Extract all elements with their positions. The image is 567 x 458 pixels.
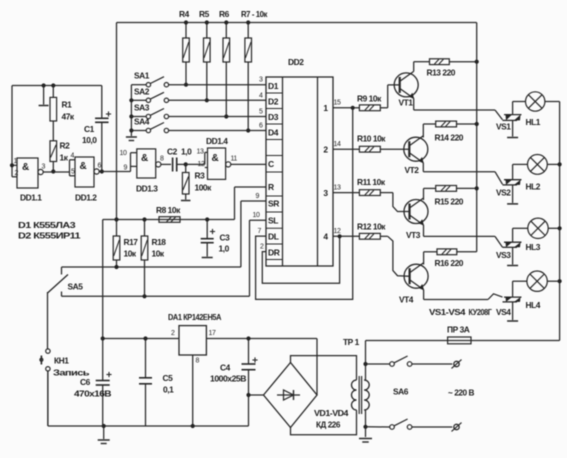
transistor VT3 [404, 198, 428, 240]
node R1 stub junction [42, 83, 46, 87]
svg-text:R7 - 10к: R7 - 10к [241, 9, 268, 19]
svg-text:R1: R1 [62, 100, 73, 110]
svg-text:D2 К555ИР11: D2 К555ИР11 [18, 231, 81, 241]
svg-text:1,0: 1,0 [181, 147, 192, 157]
bridge VD1-VD4 [264, 363, 349, 430]
resistor R1 [50, 86, 75, 141]
svg-text:C3: C3 [220, 233, 231, 243]
resistor R3 [181, 164, 212, 200]
node C1 bottom junction [100, 169, 104, 173]
wire bottom rail [48, 371, 249, 426]
capacitor C6 [74, 339, 112, 427]
wire primary top [363, 341, 367, 381]
svg-text:SA5: SA5 [68, 282, 84, 292]
svg-text:12: 12 [198, 161, 205, 168]
button КН1 Запись [40, 349, 89, 426]
svg-text:R13 220: R13 220 [427, 68, 456, 78]
switch SA1 [131, 71, 266, 87]
svg-text:SA2: SA2 [134, 86, 150, 96]
svg-text:R16 220: R16 220 [435, 258, 464, 268]
wire bridge top to transformer [291, 356, 357, 380]
svg-text:HL1: HL1 [526, 117, 541, 127]
svg-text:SA4: SA4 [134, 117, 150, 127]
svg-text:SR: SR [268, 199, 279, 209]
svg-text:ТР 1: ТР 1 [343, 337, 360, 347]
fuse ПР 3А [447, 325, 471, 344]
svg-text:17: 17 [209, 330, 216, 337]
wire +5 rail [101, 336, 179, 340]
node C3 top junction [205, 217, 209, 221]
svg-text:4: 4 [71, 153, 75, 160]
gate DD1.1 [17, 158, 70, 203]
pin numbers DD2 left [253, 77, 265, 251]
terminal lower ~220V [452, 423, 462, 432]
wire VT4 emitter to VS4 gate [424, 290, 503, 300]
svg-text:SL: SL [268, 216, 278, 226]
wire HL3 to right bus [548, 227, 559, 229]
svg-text:VS3: VS3 [496, 250, 511, 260]
node C4 / bridge junction [246, 393, 250, 397]
svg-text:R18: R18 [152, 237, 167, 247]
svg-text:D1 К555ЛА3: D1 К555ЛА3 [18, 220, 76, 230]
svg-text:R: R [268, 182, 274, 192]
wire right lamp bus [558, 102, 562, 341]
svg-text:ПР 3А: ПР 3А [447, 325, 470, 335]
svg-text:SA1: SA1 [134, 71, 150, 81]
svg-text:R10 10к: R10 10к [357, 134, 386, 144]
svg-text:DD1.3: DD1.3 [136, 184, 158, 194]
capacitor C5 [139, 339, 174, 427]
svg-text:КД 226: КД 226 [316, 420, 341, 430]
label D1 type [18, 220, 76, 230]
wire DD1.1 pin1 stub [12, 164, 17, 166]
resistor R18 [141, 220, 166, 297]
label mains voltage [448, 388, 474, 398]
wire stub with T-bar near R1 [39, 86, 49, 106]
ground VS1 [507, 120, 518, 137]
wire VS2 anode to lamp [513, 164, 528, 179]
svg-text:D4: D4 [268, 128, 279, 138]
svg-text:VS4: VS4 [496, 307, 511, 317]
wire R9 to VT1 base [388, 85, 400, 108]
svg-text:4: 4 [259, 92, 263, 99]
svg-text:DD1.4: DD1.4 [206, 136, 228, 146]
svg-text:2: 2 [171, 330, 175, 337]
svg-text:SA3: SA3 [134, 103, 150, 113]
resistor R17 [113, 220, 138, 268]
node C6 bottom junction [102, 424, 106, 428]
svg-text:C6: C6 [80, 377, 91, 387]
svg-text:C: C [268, 159, 274, 169]
resistor R15 [424, 186, 479, 207]
svg-text:13: 13 [197, 149, 204, 156]
resistor R10 [333, 134, 409, 153]
label D2 type [18, 231, 81, 241]
resistor R11 [333, 177, 393, 196]
svg-text:DD2: DD2 [288, 57, 304, 67]
lamp HL4 [526, 271, 548, 310]
svg-text:R8 10к: R8 10к [156, 205, 181, 215]
svg-text:13: 13 [334, 185, 341, 192]
wire primary to SA6 lower [366, 426, 390, 428]
svg-text:9: 9 [256, 193, 260, 200]
label VS1-VS4 type [429, 307, 492, 317]
svg-text:C4: C4 [220, 363, 231, 373]
thyristor VS2 [496, 180, 522, 198]
svg-text:&: & [212, 153, 219, 164]
svg-text:SA6: SA6 [393, 387, 409, 397]
svg-text:R6: R6 [219, 9, 230, 19]
svg-text:10к: 10к [124, 249, 137, 259]
svg-text:5: 5 [71, 169, 75, 176]
wire SR net [62, 201, 267, 269]
svg-text:VS1-VS4: VS1-VS4 [429, 307, 466, 317]
svg-text:14: 14 [334, 141, 341, 148]
capacitor C1 [82, 86, 111, 172]
svg-text:VT4: VT4 [399, 295, 414, 305]
lamp HL3 [526, 218, 549, 252]
wire HL4 to right bus [547, 280, 559, 282]
svg-text:C5: C5 [163, 373, 174, 383]
wire oscillator left drop to DD1.1 inputs [11, 86, 13, 177]
pin labels DD1.4 [197, 149, 238, 169]
wire R12 to VT4 base [388, 236, 410, 276]
wire top +5V rail [117, 22, 477, 24]
svg-text:1,0: 1,0 [219, 244, 230, 254]
switch SA6 upper [390, 356, 453, 366]
svg-text:100к: 100к [195, 183, 213, 193]
node bus/R17 junction [114, 217, 118, 221]
svg-text:10,0: 10,0 [82, 135, 97, 145]
wire primary bottom [363, 410, 367, 437]
switch SA3 [129, 103, 266, 119]
wire HL1 to right bus [545, 101, 560, 103]
node R18 top junction [142, 217, 146, 221]
svg-text:КУ208Г: КУ208Г [469, 307, 493, 317]
label SA6 [393, 387, 409, 397]
svg-text:5: 5 [259, 109, 263, 116]
IC DD2 outline [266, 57, 333, 266]
wire SA common bus [130, 85, 132, 136]
resistor R12 [333, 222, 388, 240]
wire into DD1.3 inputs [131, 153, 137, 172]
wire primary to SA6 upper [366, 363, 390, 365]
svg-text:R17: R17 [124, 237, 139, 247]
svg-text:R12 10к: R12 10к [357, 222, 386, 232]
capacitor C2 [167, 147, 192, 172]
svg-text:VD1-VD4: VD1-VD4 [314, 408, 349, 418]
gate DD1.2 [70, 157, 131, 203]
transistor VT2 [404, 136, 428, 175]
svg-text:HL4: HL4 [526, 300, 541, 310]
node DR-output4 junction [338, 234, 342, 238]
svg-text:47к: 47к [62, 112, 75, 122]
svg-text:8: 8 [160, 156, 164, 163]
thyristor VS1 [496, 115, 522, 132]
wire DA1 ground pin [191, 355, 195, 428]
transistor VT4 [399, 263, 428, 305]
svg-text:R15 220: R15 220 [435, 196, 464, 206]
wire oscillator top [12, 85, 102, 87]
wire bridge right vertex to +rail [316, 339, 318, 396]
wire riser to R pin [235, 187, 267, 220]
svg-text:&: & [141, 153, 148, 164]
svg-text:1000х25В: 1000х25В [210, 374, 246, 384]
wire VT1 emitter to VS1 gate [414, 98, 503, 119]
thyristor VS4 [496, 297, 522, 317]
svg-text:R2: R2 [60, 141, 71, 151]
wire SL net [62, 220, 267, 298]
svg-text:VS2: VS2 [496, 188, 511, 198]
svg-text:10: 10 [120, 150, 127, 157]
pin labels DD1.3 [120, 150, 165, 172]
svg-text:10к: 10к [152, 249, 165, 259]
svg-text:D3: D3 [268, 112, 279, 122]
svg-text:2: 2 [260, 244, 264, 251]
svg-text:КН1: КН1 [54, 356, 69, 366]
svg-text:C1: C1 [84, 124, 95, 134]
svg-text:15: 15 [334, 100, 341, 107]
svg-text:DR: DR [268, 248, 280, 258]
svg-text:HL2: HL2 [526, 182, 541, 192]
pin labels DD1.1 [14, 158, 46, 177]
node C2-R3 junction [184, 162, 188, 166]
wire VT3 emitter to VS3 gate [424, 225, 503, 247]
svg-text:R11 10к: R11 10к [357, 177, 386, 187]
lamp HL2 [526, 155, 548, 192]
ground VS4 [507, 302, 518, 321]
svg-text:HL3: HL3 [526, 242, 541, 252]
IC DD2 left labels [268, 81, 280, 258]
wire VS1 anode to lamp [513, 102, 526, 115]
svg-text:VT3: VT3 [406, 230, 421, 240]
wire VS4 anode to lamp [513, 281, 527, 297]
svg-text:DD1.1: DD1.1 [20, 193, 42, 203]
wire +5 drop to DA1 rail [102, 220, 104, 339]
wire VT2 emitter to VS2 gate [423, 163, 502, 185]
resistor R13 [414, 59, 479, 78]
ground main [98, 426, 110, 444]
resistor R5 [199, 9, 210, 102]
wire C2 to DD1.4 [186, 163, 205, 165]
wire +5 distribution line [103, 219, 235, 221]
ground transformer [359, 439, 372, 443]
resistor R14 [423, 121, 479, 142]
svg-text:D2: D2 [268, 97, 279, 107]
svg-text:470х16В: 470х16В [74, 389, 111, 399]
svg-text:R3: R3 [195, 171, 206, 181]
transistor VT1 [394, 71, 418, 107]
svg-text:10: 10 [253, 212, 260, 219]
ground VS3 [507, 247, 518, 265]
resistor R9 [333, 94, 388, 111]
transformer TP1 [343, 337, 369, 414]
wire DL feedback loop [256, 108, 353, 300]
wire left vertical bus [116, 23, 118, 220]
switch SA2 [129, 86, 266, 102]
svg-text:6: 6 [259, 123, 263, 130]
svg-text:Запись: Запись [53, 368, 89, 378]
gate DD1.4 [206, 136, 266, 179]
switch SA5 [48, 267, 84, 349]
svg-text:&: & [80, 161, 87, 172]
svg-text:7: 7 [258, 228, 262, 235]
wire right bus from top rail [476, 23, 478, 252]
resistor R16 [424, 249, 477, 268]
terminal upper ~220V [452, 360, 462, 369]
node R1 top junction [51, 83, 55, 87]
wire HL2 to right bus [547, 163, 559, 165]
resistor R6 [219, 9, 230, 119]
wire into DD1.4 inputs [205, 152, 208, 167]
capacitor C4 [210, 339, 258, 427]
switch SA4 [129, 117, 266, 133]
svg-text:C2: C2 [167, 147, 178, 157]
svg-text:1: 1 [14, 158, 18, 165]
svg-text:R5: R5 [199, 9, 210, 19]
svg-text:12: 12 [334, 228, 341, 235]
svg-text:3: 3 [42, 164, 46, 171]
svg-text:9: 9 [124, 165, 128, 172]
svg-text:D1: D1 [268, 81, 279, 91]
svg-text:DA1 КР142ЕН5А: DA1 КР142ЕН5А [168, 312, 221, 322]
svg-text:VT2: VT2 [405, 165, 420, 175]
svg-text:VS1: VS1 [496, 122, 511, 132]
svg-text:11: 11 [231, 156, 238, 163]
thyristor VS3 [496, 242, 522, 260]
wire R11 to VT3 base [393, 193, 410, 212]
resistor R8 [156, 205, 181, 222]
svg-text:8: 8 [196, 358, 200, 365]
wire DA1 output rail [206, 336, 317, 340]
resistor R2 [50, 141, 70, 172]
wire VS3 anode to lamp [513, 228, 528, 242]
regulator DA1 [168, 312, 221, 365]
switch SA6 lower [390, 419, 453, 429]
capacitor C3 [201, 220, 230, 258]
svg-text:R9 10к: R9 10к [357, 94, 382, 104]
ground SA bus [126, 137, 137, 141]
wire bridge bottom to transformer [291, 410, 357, 435]
resistor R4 [179, 9, 190, 87]
node DD1.1 pin1 junction [10, 163, 14, 167]
wire DR feedback loop [262, 236, 339, 283]
svg-text:~ 220 В: ~ 220 В [448, 388, 474, 398]
gate DD1.3 [136, 149, 171, 194]
pin numbers DD2 right [334, 100, 341, 236]
IC DD2 cell separators [266, 93, 283, 260]
ground VS2 [507, 185, 518, 204]
IC DD2 output digits [323, 103, 328, 242]
svg-text:6: 6 [98, 163, 102, 170]
svg-text:2: 2 [15, 170, 19, 177]
wire DD1.1 pin2 stub [12, 176, 17, 178]
lamp HL1 [526, 92, 545, 127]
svg-text:DD1.2: DD1.2 [75, 193, 97, 203]
svg-text:R14 220: R14 220 [435, 133, 464, 143]
resistor R7 [241, 9, 268, 133]
node DL-output1 junction [351, 106, 355, 110]
svg-text:R4: R4 [179, 9, 190, 19]
pin labels DD1.2 [71, 153, 102, 176]
svg-text:3: 3 [259, 77, 263, 84]
svg-text:DL: DL [268, 232, 279, 242]
svg-text:0,1: 0,1 [163, 385, 174, 395]
svg-text:&: & [22, 162, 29, 173]
wire fuse rail [366, 340, 560, 342]
svg-text:1к: 1к [60, 153, 69, 163]
node R2 bottom junction [51, 169, 55, 173]
svg-text:VT1: VT1 [399, 98, 414, 108]
wire bridge left vertex to 0V [249, 394, 264, 396]
